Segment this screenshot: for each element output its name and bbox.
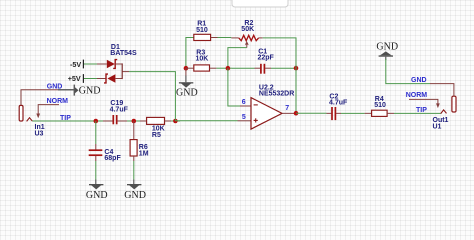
ground flag (input jack) <box>74 85 75 96</box>
svg-text:6: 6 <box>242 99 246 106</box>
svg-text:50K: 50K <box>241 26 254 33</box>
capacitor C1 <box>255 67 261 69</box>
connector U3 (In1) jack sleeve <box>19 105 23 121</box>
wire R1 to R2 <box>218 37 232 39</box>
potentiometer R2 <box>231 37 239 39</box>
resistor R3 <box>194 65 210 71</box>
svg-text:22pF: 22pF <box>258 55 275 62</box>
junction node F <box>294 66 299 71</box>
U3 GND pin wire <box>21 90 58 105</box>
wire R4 to output jack tip <box>394 112 441 114</box>
ground (under R6) <box>127 184 141 189</box>
ground (under C4) <box>89 184 103 189</box>
wire down to C4 <box>95 121 97 144</box>
D1 common bar <box>121 63 123 79</box>
wire TIP main (jack to C19) <box>32 120 103 122</box>
svg-text:NE5532DR: NE5532DR <box>259 91 294 98</box>
R2 wiper arrow <box>245 41 249 45</box>
svg-text:5: 5 <box>242 114 246 121</box>
U1 NORM pin wire <box>409 99 438 103</box>
svg-text:+5V: +5V <box>68 74 81 83</box>
U3 NORM pin wire <box>38 105 59 114</box>
svg-text:-5V: -5V <box>70 60 81 69</box>
connector U1 (Out1) jack sleeve <box>452 96 456 112</box>
resistor R5 <box>140 120 147 122</box>
svg-text:NORM: NORM <box>406 92 428 99</box>
wire C19 to node B <box>127 120 140 122</box>
wire clamp vertical <box>129 72 175 121</box>
wire C1 to feedback vertical <box>271 67 296 69</box>
svg-text:68pF: 68pF <box>104 155 121 162</box>
wire feedback vertical lower <box>295 65 297 113</box>
pin 7 output wire <box>282 112 296 114</box>
svg-text:GND: GND <box>86 190 108 201</box>
svg-text:GND: GND <box>376 42 398 53</box>
wire node D to C1 <box>232 67 255 69</box>
svg-text:BAT54S: BAT54S <box>110 50 137 57</box>
svg-text:1M: 1M <box>139 150 149 157</box>
svg-text:510: 510 <box>374 102 386 109</box>
junction node C (clamp tap) <box>173 119 178 124</box>
svg-text:U3: U3 <box>35 131 44 138</box>
svg-text:R5: R5 <box>152 132 161 139</box>
diode D1b <box>97 78 106 80</box>
tooltip box <box>232 0 288 7</box>
junction node B (R6 tap) <box>132 119 137 124</box>
capacitor C4 <box>89 149 103 151</box>
svg-text:GND: GND <box>124 190 146 201</box>
junction node A (C4 tap) <box>94 119 99 124</box>
wire down to R6 <box>133 121 135 140</box>
wire node C to op-amp pin 5 <box>175 120 237 122</box>
svg-text:7: 7 <box>285 105 289 112</box>
wire R5 to node C <box>171 120 180 122</box>
junction node D <box>226 66 231 71</box>
wire R1 left vertical <box>186 38 194 69</box>
junction node E (R3 left / gnd) <box>184 66 189 71</box>
wire R2 right to feedback vertical <box>263 38 296 65</box>
resistor R1 <box>194 34 211 40</box>
diode D1a <box>97 63 107 65</box>
svg-text:10K: 10K <box>196 56 209 63</box>
wire C4 to ground <box>95 161 97 180</box>
wire output to C2 <box>296 112 327 114</box>
svg-text:510: 510 <box>196 27 208 34</box>
svg-text:4.7uF: 4.7uF <box>329 100 348 107</box>
NORM contact arrow (output) <box>436 103 440 108</box>
svg-text:GND: GND <box>79 86 101 97</box>
wire gnd to output jack <box>386 59 430 84</box>
capacitor C19 <box>103 120 113 122</box>
wire to ground <box>185 68 187 75</box>
svg-text:NORM: NORM <box>47 98 69 105</box>
capacitor C2 <box>327 112 332 114</box>
svg-text:GND: GND <box>176 87 198 98</box>
svg-text:U1: U1 <box>433 124 442 131</box>
wire C2 to R4 <box>341 112 365 114</box>
U1 tip lever <box>441 110 447 114</box>
svg-text:TIP: TIP <box>416 107 427 114</box>
wire R3 to node D <box>216 67 232 69</box>
ground (R3 left) <box>179 82 193 87</box>
resistor R4 <box>365 112 372 114</box>
svg-text:4.7uF: 4.7uF <box>110 106 129 113</box>
svg-text:GND: GND <box>47 84 63 91</box>
wire R6 to ground <box>133 161 135 180</box>
op-amp U2.2 NE5532DR <box>251 98 282 130</box>
wire wiper to node D <box>228 48 247 69</box>
U1 GND pin wire <box>430 84 454 96</box>
junction node G (output) <box>294 111 299 116</box>
resistor R6 <box>130 140 137 156</box>
NORM contact arrow <box>36 114 40 119</box>
U3 tip lever <box>27 118 33 122</box>
wire node D to op-amp pin 6 <box>228 68 240 106</box>
svg-text:GND: GND <box>411 77 427 84</box>
